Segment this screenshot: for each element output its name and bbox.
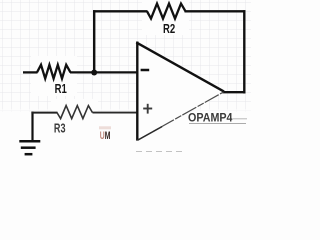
svg-text:R1: R1 [55,82,67,96]
faint artifact dashes bottom [136,151,182,153]
wire input to R1 [23,71,38,73]
op-amp non-inverting pin plus sign [143,104,152,114]
wire node A up to feedback [93,10,95,73]
component body white fill R3 [51,99,98,112]
resistor R2 [147,4,186,19]
component body white fill R1 [31,56,77,96]
component body white fill R2 [142,0,189,35]
op-amp body white fill [137,42,224,141]
op-amp U1 top edge [136,42,224,91]
wire top left to R2 [93,10,148,12]
wire ground to R3 [31,112,57,114]
wire R2 to top right corner [185,10,246,12]
svg-text:R3: R3 [54,121,66,135]
resistor R1 [37,65,71,79]
wire node A to op-amp inverting input [94,71,137,73]
wire R1 to node A [70,71,95,73]
junction node A [91,70,97,76]
label OPAMP4 faint underline artifact [189,123,246,125]
svg-text:R2: R2 [163,22,175,36]
wire R3 to op-amp non-inverting input [93,112,137,114]
svg-text:UM: UM [100,130,111,142]
op-amp U1 left edge [136,42,138,141]
wire op-amp output [223,91,246,93]
ground [19,112,40,155]
label OPAMP4 faint strike artifact [233,118,247,120]
svg-text:OPAMP4: OPAMP4 [188,113,233,125]
wire feedback down to output [243,10,245,93]
op-amp inverting pin minus sign [141,69,150,72]
resistor R3 [57,106,93,119]
op-amp U1 bottom edge [138,92,224,140]
label U1 watermark halo [99,126,111,129]
op-amp U1 bottom edge dark segment [138,127,162,140]
